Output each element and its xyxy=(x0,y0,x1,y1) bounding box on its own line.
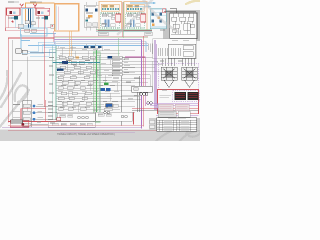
wires from switch panel xyxy=(31,106,57,125)
solenoid box purple small xyxy=(157,104,162,108)
pilot valve block white xyxy=(178,111,190,117)
watermark script bottom-left xyxy=(0,71,29,129)
wire cyan arrow lower xyxy=(132,6,148,8)
solenoid SV-R (teal) xyxy=(41,16,47,20)
connector comb 2 xyxy=(171,48,181,56)
solenoid SV-L (teal) xyxy=(11,16,17,20)
pilot hose box light blue xyxy=(22,9,33,27)
relay box red bottom-left xyxy=(10,120,29,127)
swash motor unit left xyxy=(174,92,185,100)
wire red inside pilot unit xyxy=(57,7,59,31)
pilot wire orange top xyxy=(26,3,55,22)
switch blue block pair xyxy=(101,88,111,91)
wire gray risers left xyxy=(12,40,56,122)
solenoid manifold block teal xyxy=(150,9,166,29)
diode pair D1 xyxy=(140,93,148,96)
bottom connector box right xyxy=(96,112,133,121)
bus wire light blue xyxy=(55,40,146,42)
module small boxes xyxy=(104,104,118,111)
bus wire lavender xyxy=(55,39,142,41)
margin gray patch right xyxy=(149,118,200,130)
wire red drops from valve blocks xyxy=(5,15,38,31)
ladder device boxes xyxy=(58,56,95,110)
switch panel frame bottom-left xyxy=(23,101,32,128)
switch navy block 3 xyxy=(108,56,113,59)
label text swing motor xyxy=(160,95,172,97)
pilot valve unit box orange xyxy=(55,4,79,31)
bus wire red bottom xyxy=(8,125,144,127)
block B blue bars xyxy=(130,20,135,28)
page background xyxy=(0,0,200,141)
block A red relay box xyxy=(116,14,121,22)
wire red switch feed xyxy=(21,100,46,122)
motor enclosure purple dashed xyxy=(173,91,200,102)
pilot valve block pink right xyxy=(175,104,189,110)
wire teal feed xyxy=(53,61,100,63)
orange terminal xyxy=(76,56,79,58)
terminal label box left xyxy=(98,32,108,36)
check valve dot red xyxy=(12,21,14,23)
terminal label box right xyxy=(145,32,152,36)
travel motor valve symbol right xyxy=(182,67,198,87)
wire green riser xyxy=(96,50,98,120)
wire purple riser right xyxy=(140,40,142,129)
wire to relay box top xyxy=(164,9,196,13)
relief valve symbol left (red Y) xyxy=(20,4,24,9)
block A relay area green dashed xyxy=(101,13,120,28)
controller block B peach border xyxy=(124,2,147,31)
wire navy branch xyxy=(30,51,56,53)
travel speed valve box inner xyxy=(168,44,196,58)
wire pair navy center xyxy=(29,9,31,29)
travel valve block left xyxy=(6,8,20,15)
controller block A peach border xyxy=(99,2,122,31)
connector stack column xyxy=(112,56,122,75)
relay box internal circuit xyxy=(171,13,195,34)
bus wire red xyxy=(55,35,148,37)
switch navy block 1 xyxy=(62,61,68,64)
bus terminal blocks navy xyxy=(84,46,102,48)
purple dashed enclosure xyxy=(158,63,198,89)
label text travel motor left xyxy=(8,1,42,3)
bus wire cyan xyxy=(28,44,148,46)
switch row 3 xyxy=(23,118,35,121)
travel motor red box xyxy=(158,90,199,114)
wire cyan inside pilot unit xyxy=(56,6,58,31)
relay box inset white xyxy=(170,13,197,39)
cab harness box red (main) xyxy=(8,38,133,125)
wire magenta branch xyxy=(125,57,145,106)
wire purple risers far right xyxy=(155,40,157,110)
switch row 2 xyxy=(23,111,35,114)
wire red lower right xyxy=(132,108,199,110)
bus wire slate xyxy=(55,42,148,44)
pilot valve block pink left xyxy=(158,104,173,110)
bottom white strip box xyxy=(48,122,95,128)
bottom margin band xyxy=(0,129,200,141)
relay ladder rungs (gray) xyxy=(56,48,135,112)
wire cyan steps to bus xyxy=(21,42,56,56)
wire bundle under blocks xyxy=(96,29,152,31)
wires ladder to valve block xyxy=(122,61,157,99)
pump box stub wires xyxy=(86,2,96,31)
wire purple lines lower right xyxy=(146,104,199,116)
legend table xyxy=(157,118,197,132)
wire cyan to bus xyxy=(30,33,56,35)
wire gray drops to valve box xyxy=(148,43,152,54)
watermark swirl top-right xyxy=(186,1,201,4)
bus wire purple bottom xyxy=(2,127,141,129)
dark module box xyxy=(11,120,22,123)
block B fuse row orange xyxy=(126,4,144,11)
watermark swirl overlay top-right xyxy=(118,0,178,34)
switch navy block 2 xyxy=(57,68,64,71)
junction cluster below valves xyxy=(25,21,37,33)
block A blue bars xyxy=(105,20,110,28)
label speckle layer (tiny schematic text) xyxy=(8,2,189,124)
block A fuse row orange xyxy=(101,4,119,11)
wires from connector stack xyxy=(122,58,162,75)
diode circles bottom xyxy=(104,111,110,113)
scan tone overlay xyxy=(0,0,200,129)
drain box gray xyxy=(18,24,24,29)
wire red riser right xyxy=(143,36,145,126)
diode pair D2 xyxy=(147,102,152,105)
bus wire green xyxy=(55,37,148,39)
shuttle valve small box xyxy=(51,24,55,28)
red switch small box xyxy=(57,118,61,121)
wire black divider xyxy=(122,76,140,126)
switch row 4 xyxy=(21,123,30,126)
wire red return lower xyxy=(5,28,56,31)
wire blue drop xyxy=(145,41,147,52)
wire cyan riser left xyxy=(21,34,30,48)
gray inset backdrop top-right xyxy=(163,10,200,41)
watermark script bottom-right xyxy=(154,126,203,143)
relief valve symbol right (red Y) xyxy=(33,4,37,9)
console green panel band xyxy=(93,52,100,122)
relay R box mid xyxy=(132,86,152,92)
terminal blocks left of table xyxy=(150,120,155,128)
wire black lower right xyxy=(132,110,199,112)
switch row 1 xyxy=(23,104,35,107)
wire teal risers xyxy=(53,45,100,120)
bus wire purple margin xyxy=(60,131,135,133)
block B red relay box xyxy=(141,14,146,22)
strip box contacts xyxy=(52,123,92,126)
bus wire darkred margin xyxy=(8,129,196,131)
travel valve block right xyxy=(36,8,50,15)
travel motor valve symbol left xyxy=(161,67,177,87)
block B relay area green dashed xyxy=(126,13,145,28)
connector comb 1 xyxy=(158,48,168,56)
pilot valve block gray xyxy=(158,111,176,117)
wire red header top-left xyxy=(6,8,45,31)
pilot return box light blue xyxy=(21,28,48,36)
wire cyan drops from solenoids xyxy=(16,20,46,29)
wire bundle between blocks xyxy=(122,2,123,38)
swash motor unit right xyxy=(188,92,199,100)
wire green drop xyxy=(117,38,119,56)
junction stubs vertical xyxy=(59,44,118,112)
wires down to travel valves xyxy=(162,59,194,66)
junction boxes cyan cluster xyxy=(16,49,28,54)
travel speed valve box outer xyxy=(153,39,196,59)
wire cyan arrow upper xyxy=(130,2,153,4)
baseline under controller blocks xyxy=(98,30,152,32)
wire red riser mid-left xyxy=(43,15,45,107)
bus left risers xyxy=(52,31,55,44)
bottom connector box mid xyxy=(57,113,95,121)
pilot wire orange riser xyxy=(70,31,71,62)
pump regulator box xyxy=(84,5,99,27)
valve box terminals xyxy=(183,46,193,56)
svg-text:TRAVEL CIRCUIT ( TRAVEL 2nd SP: TRAVEL CIRCUIT ( TRAVEL 2nd SPEED OPERAT… xyxy=(57,133,115,136)
resistor module blue xyxy=(106,104,113,108)
indicator green block xyxy=(104,82,109,85)
